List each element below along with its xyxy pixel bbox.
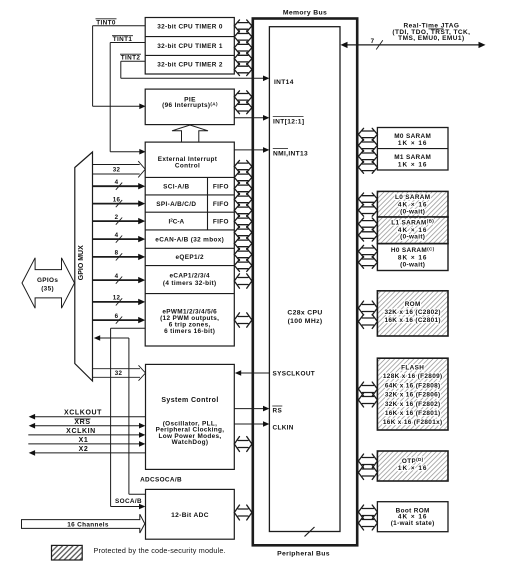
svg-text:SOCA/B: SOCA/B: [115, 498, 142, 505]
double arrow System Control to memory bus: [234, 437, 252, 452]
double arrows M0/M1 SARAM to memory bus: [358, 128, 377, 140]
svg-text:M0 SARAM: M0 SARAM: [394, 133, 431, 140]
svg-text:NMI,INT13: NMI,INT13: [273, 151, 308, 158]
svg-text:Memory Bus: Memory Bus: [283, 10, 327, 17]
svg-text:XRS: XRS: [74, 419, 90, 426]
2-line bus to I2C: [93, 220, 139, 222]
OTP box (code-security hatched): [377, 451, 448, 481]
svg-text:(0-wait): (0-wait): [400, 233, 425, 240]
svg-text:7: 7: [371, 38, 375, 45]
RS wire: [234, 408, 263, 410]
wire INT[12:1] from PIE: [234, 117, 263, 119]
svg-text:(4 timers 32-bit): (4 timers 32-bit): [163, 280, 217, 287]
svg-text:TINT2: TINT2: [121, 55, 141, 62]
FIFO column divider: [207, 177, 209, 230]
svg-text:(0-wait): (0-wait): [400, 208, 425, 215]
svg-text:ADCSOCA/B: ADCSOCA/B: [140, 476, 182, 483]
svg-text:SCI-A/B: SCI-A/B: [163, 183, 189, 190]
wire INT14 from TINT2: [121, 77, 264, 79]
JTAG bus width 7 slash: [376, 40, 383, 49]
peripheral bus slash: [305, 527, 315, 537]
svg-text:System Control: System Control: [161, 397, 218, 404]
X2 signal line: [34, 452, 146, 454]
svg-text:32-bit CPU TIMER 0: 32-bit CPU TIMER 0: [157, 24, 223, 31]
double arrows L0/L1/H0 SARAM to memory bus: [358, 193, 377, 205]
32-line bus GPIO MUX to System Control: [93, 368, 141, 370]
svg-text:GPIO MUX: GPIO MUX: [78, 245, 85, 280]
4-line bus to eCAN: [93, 238, 139, 240]
svg-text:FIFO: FIFO: [213, 183, 229, 190]
svg-text:INT14: INT14: [274, 79, 294, 86]
double arrow ePWM to memory bus: [234, 313, 252, 328]
wire NMI,INT13 from external interrupt control: [234, 149, 263, 151]
C28x CPU box: [269, 27, 340, 532]
XRS signal line: [34, 425, 140, 427]
double arrows OTP to memory bus: [358, 454, 377, 468]
svg-text:Peripheral Bus: Peripheral Bus: [277, 551, 330, 558]
legend code-security hatched box: [52, 545, 83, 560]
svg-text:(1-wait state): (1-wait state): [391, 520, 435, 527]
svg-text:H0 SARAM(C): H0 SARAM(C): [391, 246, 435, 254]
12-line bus to ePWM: [93, 301, 139, 303]
svg-text:16K x 16 (C2801): 16K x 16 (C2801): [384, 317, 440, 324]
PIE block arrow from external interrupt control: [172, 125, 208, 142]
SYSCLKOUT wire: [241, 372, 270, 374]
svg-text:ROM: ROM: [405, 301, 421, 308]
svg-text:32K x 16 (F2806): 32K x 16 (F2806): [385, 392, 441, 399]
double arrows ROM to memory bus: [358, 301, 377, 315]
svg-text:eQEP1/2: eQEP1/2: [176, 254, 204, 261]
svg-text:FIFO: FIFO: [213, 201, 229, 208]
svg-text:(96 Interrupts)(A): (96 Interrupts)(A): [162, 102, 218, 110]
TINT0 wire: [93, 25, 146, 27]
svg-text:FLASH: FLASH: [401, 364, 424, 371]
System Control box: [146, 364, 235, 469]
double arrows PIE to memory bus: [234, 91, 252, 103]
double arrow ADC to memory bus: [234, 505, 252, 520]
Boot ROM box: [377, 502, 448, 532]
CLKIN wire: [234, 423, 263, 425]
svg-text:1K × 16: 1K × 16: [398, 162, 428, 169]
svg-text:32-bit CPU TIMER 2: 32-bit CPU TIMER 2: [157, 62, 223, 69]
wire ePWM to GPIO MUX: [99, 337, 129, 339]
FLASH box (code-security hatched): [377, 358, 448, 430]
4-line bus to SCI: [93, 185, 139, 187]
L1 SARAM box (code-security hatched): [377, 217, 448, 244]
svg-text:12: 12: [113, 295, 121, 302]
32-bit CPU timer box: [145, 18, 234, 75]
svg-text:eCAN-A/B (32 mbox): eCAN-A/B (32 mbox): [155, 236, 224, 243]
L0 SARAM box (code-security hatched): [377, 191, 448, 217]
svg-text:16 Channels: 16 Channels: [67, 521, 109, 528]
svg-text:Protected by the code-security: Protected by the code-security module.: [94, 546, 226, 555]
svg-text:C28x CPU: C28x CPU: [287, 310, 322, 317]
svg-text:(100 MHz): (100 MHz): [288, 318, 323, 325]
svg-text:M1 SARAM: M1 SARAM: [394, 154, 431, 161]
svg-text:32-bit CPU TIMER 1: 32-bit CPU TIMER 1: [157, 43, 223, 50]
32-line bus into external interrupt control: [93, 164, 140, 166]
memory bus outer box: [253, 19, 357, 546]
svg-text:12-Bit ADC: 12-Bit ADC: [171, 512, 209, 519]
svg-text:WatchDog): WatchDog): [172, 439, 209, 446]
double arrows Boot ROM to memory bus: [358, 505, 377, 519]
svg-text:I2C-A: I2C-A: [168, 218, 184, 226]
16 Channels input arrow: [22, 514, 145, 533]
XCLKOUT signal line: [34, 416, 146, 418]
H0 SARAM box: [377, 244, 448, 271]
double arrows CPU timers to memory bus: [234, 20, 252, 32]
GPIOs (35) double arrow: [22, 258, 75, 308]
M0/M1 SARAM box: [377, 128, 448, 171]
wire ePWM SOCA/B to ADC: [111, 327, 146, 329]
svg-text:6: 6: [115, 313, 119, 320]
TINT1 wire: [110, 42, 145, 44]
svg-text:32K x 16 (F2802): 32K x 16 (F2802): [385, 401, 441, 408]
svg-text:XCLKIN: XCLKIN: [66, 428, 96, 435]
double arrow eCAP to memory bus: [234, 274, 252, 289]
svg-text:16: 16: [113, 196, 121, 203]
svg-text:XCLKOUT: XCLKOUT: [64, 410, 102, 417]
GPIO MUX parallelogram: [75, 152, 93, 381]
svg-text:32K x 16 (C2802): 32K x 16 (C2802): [384, 309, 440, 316]
svg-text:1K × 16: 1K × 16: [398, 140, 428, 147]
svg-text:FIFO: FIFO: [213, 218, 229, 225]
4-line bus to eCAP: [93, 279, 139, 281]
svg-text:RS: RS: [273, 408, 283, 415]
TINT2 wire: [121, 60, 145, 62]
TRST overline: [429, 28, 444, 30]
svg-text:X1: X1: [79, 437, 89, 444]
timer row dividers: [145, 36, 234, 38]
svg-text:4: 4: [115, 273, 119, 280]
XCLKIN signal line: [28, 434, 140, 436]
svg-text:INT[12:1]: INT[12:1]: [273, 119, 304, 126]
svg-text:128K x 16 (F2809): 128K x 16 (F2809): [383, 373, 443, 380]
svg-text:SYSCLKOUT: SYSCLKOUT: [273, 370, 316, 377]
8-line bus to eQEP: [93, 256, 139, 258]
svg-text:16K x 16 (F2801): 16K x 16 (F2801): [385, 410, 441, 417]
svg-text:64K x 16 (F2808): 64K x 16 (F2808): [385, 382, 441, 389]
peripheral stack box (External Interrupt Control / SCI / SPI / I2C / eCAN / eQEP / eCAP / ePWM): [145, 142, 234, 346]
svg-text:(35): (35): [41, 286, 54, 293]
svg-text:4: 4: [115, 232, 119, 239]
svg-text:32: 32: [115, 370, 123, 377]
svg-text:2: 2: [115, 214, 119, 221]
double arrows FLASH to memory bus: [358, 382, 377, 396]
svg-text:eCAP1/2/3/4: eCAP1/2/3/4: [169, 273, 210, 280]
svg-text:GPIOs: GPIOs: [37, 277, 58, 284]
svg-text:Control: Control: [175, 162, 200, 169]
svg-text:SPI-A/B/C/D: SPI-A/B/C/D: [156, 201, 196, 208]
svg-text:CLKIN: CLKIN: [273, 424, 294, 431]
12-Bit ADC box: [146, 489, 235, 539]
Real-Time JTAG arrow: [346, 44, 479, 46]
svg-text:L0 SARAM: L0 SARAM: [395, 194, 430, 201]
16-line bus to SPI: [93, 203, 139, 205]
PIE box: [145, 89, 234, 125]
svg-text:8: 8: [115, 250, 119, 257]
svg-text:16K x 16 (F2801x): 16K x 16 (F2801x): [383, 419, 443, 426]
ROM box (code-security hatched): [377, 291, 448, 336]
svg-text:6 timers 16-bit): 6 timers 16-bit): [164, 328, 215, 335]
svg-text:TMS, EMU0, EMU1): TMS, EMU0, EMU1): [398, 35, 464, 42]
svg-text:(0-wait): (0-wait): [400, 262, 425, 269]
svg-text:32: 32: [113, 166, 121, 173]
svg-text:4: 4: [115, 179, 119, 186]
svg-text:X2: X2: [79, 446, 89, 453]
double arrows peripherals to memory bus: [234, 160, 252, 172]
6-line bus to ePWM: [93, 319, 139, 321]
X1 signal line: [28, 443, 140, 445]
svg-text:1K × 16: 1K × 16: [398, 465, 428, 472]
